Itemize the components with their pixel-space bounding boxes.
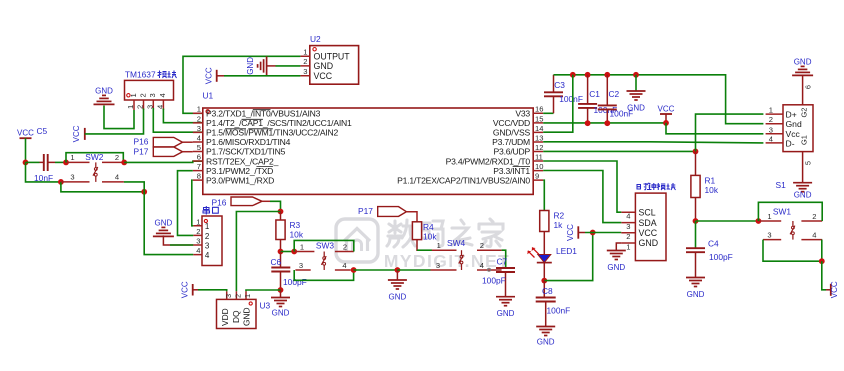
- wire U1 pin11 to clock SCL: [543, 161, 621, 212]
- junction node J (GND): [395, 267, 401, 273]
- svg-text:P1.4/T2_/CAP1_/SCS/TIN2/UCC1/A: P1.4/T2_/CAP1_/SCS/TIN2/UCC1/AIN1: [206, 118, 352, 128]
- power VCC (U2, rotated): [204, 67, 224, 84]
- svg-text:1: 1: [243, 294, 252, 298]
- TM1637 pin numbers (outside, rotated): [126, 105, 164, 109]
- capacitor C8 100nF: [536, 281, 571, 327]
- capacitor C6 100pF: [271, 252, 307, 291]
- svg-text:1k: 1k: [554, 220, 564, 230]
- svg-text:SW4: SW4: [447, 238, 465, 248]
- cap C4 plates: [686, 248, 705, 252]
- wire VCC to U3 VDD: [198, 290, 227, 291]
- svg-text:4: 4: [115, 173, 119, 182]
- wire U1 pin16 V33 to C3: [543, 112, 553, 114]
- wire C6 node to U3 GND pin: [246, 290, 281, 291]
- svg-text:3: 3: [436, 261, 440, 270]
- wire node J to SW4 pin3: [397, 269, 430, 271]
- svg-text:3: 3: [205, 241, 210, 250]
- wire USB D+ pin1: [696, 114, 764, 151]
- wire SW4 pin2 to C7: [502, 250, 506, 268]
- svg-text:9: 9: [535, 172, 539, 181]
- wire U1 pin8 to serial pin1: [192, 180, 194, 226]
- svg-text:GND: GND: [242, 307, 252, 326]
- svg-text:C6: C6: [271, 257, 282, 267]
- connector USB: [783, 105, 813, 152]
- wire U2 pin2 to GND: [276, 65, 301, 67]
- junction node A (VCC): [23, 160, 29, 166]
- ground (U3/C6): [271, 298, 290, 318]
- U1 left pin stubs: [193, 113, 203, 180]
- wire C5 to SW2 pin1: [55, 161, 66, 163]
- svg-text:2: 2: [303, 57, 307, 66]
- svg-text:2: 2: [115, 153, 119, 162]
- svg-text:P1.1/T2EX/CAP2/TIN1/VBUS2/AIN0: P1.1/T2EX/CAP2/TIN1/VBUS2/AIN0: [397, 175, 530, 185]
- cap C7 plates: [496, 268, 515, 272]
- clock module label 时钟模块: [637, 183, 676, 190]
- U3 pin numbers (rotated): [224, 294, 252, 298]
- port P16 flag (U1 pin4): [134, 137, 193, 147]
- junction SW1 loop: [756, 218, 762, 224]
- svg-text:GND: GND: [639, 238, 659, 248]
- power VCC (TM1637): [72, 125, 85, 142]
- svg-text:P17: P17: [358, 206, 373, 216]
- svg-text:GND: GND: [794, 58, 812, 67]
- U1 right pin stubs: [533, 113, 543, 180]
- svg-text:10: 10: [535, 162, 543, 171]
- wire SW3 top loop: [294, 240, 354, 251]
- switch SW2: [61, 152, 125, 182]
- svg-text:VCC: VCC: [830, 281, 839, 298]
- cap C6 plates: [271, 268, 290, 272]
- svg-text:GND: GND: [155, 219, 173, 228]
- svg-text:4: 4: [196, 246, 200, 255]
- svg-text:P1.7/SCK/TXD1/TIN5: P1.7/SCK/TXD1/TIN5: [206, 147, 286, 157]
- junction C5/SW2.1: [63, 160, 69, 166]
- svg-text:1: 1: [126, 105, 135, 109]
- junction R3/C6: [278, 249, 284, 255]
- svg-text:P17: P17: [134, 146, 149, 156]
- svg-text:C8: C8: [542, 286, 553, 296]
- power VCC (left): [17, 129, 34, 139]
- switch SW4 lever: [459, 250, 464, 270]
- ground (node J): [388, 280, 407, 302]
- TM1637 pin1 marker: [127, 94, 130, 97]
- switch SW1: [759, 207, 822, 240]
- resistor R3 10k: [276, 220, 304, 240]
- ground (TM1637): [94, 87, 115, 105]
- svg-text:VCC: VCC: [204, 67, 213, 84]
- junction C1/VCC line: [585, 120, 591, 126]
- U1 pin names and numbers: [197, 105, 544, 186]
- wire VCC stem: [665, 114, 667, 123]
- wire TM1637 pin4 to U1 pin2: [163, 109, 202, 123]
- ground (U2, rotated): [246, 56, 276, 75]
- svg-text:SW1: SW1: [773, 207, 791, 217]
- svg-text:1: 1: [626, 242, 630, 251]
- connector U2: [300, 34, 358, 84]
- svg-text:C4: C4: [708, 239, 719, 249]
- svg-text:GND: GND: [95, 87, 113, 96]
- svg-text:100pF: 100pF: [709, 252, 733, 262]
- wire GND rail (top): [554, 75, 764, 124]
- capacitor C7 100pF: [482, 256, 515, 296]
- ground (clock): [607, 251, 626, 273]
- svg-text:1: 1: [767, 212, 771, 221]
- LED1: [527, 232, 577, 281]
- junction LED/C8: [541, 278, 547, 284]
- svg-text:3: 3: [148, 93, 157, 97]
- svg-text:VCC: VCC: [658, 104, 675, 113]
- svg-text:10k: 10k: [423, 231, 437, 241]
- svg-text:VCC: VCC: [566, 224, 575, 241]
- wire node K to SW1: [696, 220, 760, 222]
- svg-text:100nF: 100nF: [547, 306, 571, 316]
- USB shield pin6: [803, 75, 813, 104]
- svg-text:MYDIGIT.NET: MYDIGIT.NET: [384, 251, 510, 271]
- svg-text:P3.4/PWM2/RXD1_/T0: P3.4/PWM2/RXD1_/T0: [446, 156, 531, 166]
- svg-text:VDD: VDD: [220, 308, 230, 326]
- svg-text:4: 4: [158, 93, 167, 97]
- svg-text:4: 4: [205, 251, 210, 260]
- wire SW1 top loop: [758, 202, 822, 221]
- wire SW3 bottom loop: [294, 270, 353, 280]
- svg-text:7: 7: [197, 162, 201, 171]
- module TM1637 label 模块: [158, 71, 177, 79]
- wire VCC bar to clock pin2: [585, 232, 621, 234]
- svg-text:C1: C1: [589, 89, 600, 99]
- svg-text:1: 1: [205, 222, 210, 231]
- svg-text:GND: GND: [627, 104, 645, 113]
- svg-text:11: 11: [535, 152, 543, 161]
- svg-text:3: 3: [626, 222, 630, 231]
- wire LED node to VCC node (clock): [544, 233, 592, 281]
- cap C2 plates: [598, 105, 617, 109]
- serial port pin numbers: [196, 217, 210, 260]
- junction VCC clock node: [590, 230, 596, 236]
- power VCC (top): [658, 104, 675, 114]
- wire P3.6/UDP pin12 line: [543, 150, 695, 152]
- ground (C8): [536, 327, 555, 347]
- wire GND/VSS pin14 up to rail: [543, 75, 573, 132]
- USB shield pin5: [803, 152, 813, 183]
- port P17 flag (bottom): [358, 206, 417, 222]
- wire R4 to SW4 pin1: [417, 240, 432, 251]
- svg-text:10k: 10k: [705, 185, 719, 195]
- svg-text:GND: GND: [497, 309, 515, 318]
- clock module pin numbers: [626, 212, 630, 252]
- wire node E down to serial pin4: [144, 192, 193, 255]
- junction SW2.2 / RST wire: [121, 160, 127, 166]
- wire SW1 node down to VCC: [822, 261, 826, 290]
- svg-text:4: 4: [626, 212, 630, 221]
- svg-text:GND: GND: [246, 57, 255, 75]
- svg-text:G2: G2: [800, 108, 809, 118]
- svg-text:4: 4: [769, 134, 773, 143]
- svg-text:P3.7/UDM: P3.7/UDM: [492, 137, 530, 147]
- svg-text:SCL: SCL: [639, 207, 656, 217]
- wire SW2 pin4 to node E: [124, 182, 144, 192]
- svg-text:2: 2: [343, 242, 347, 251]
- junction C2/VCC line: [604, 120, 610, 126]
- connector P16 serial port: [202, 216, 222, 266]
- svg-text:2: 2: [196, 227, 200, 236]
- junction SW2.3 node: [58, 179, 64, 185]
- capacitor C4 100pF: [686, 221, 733, 278]
- ground (USB top): [792, 58, 813, 76]
- capacitor C2 100nF: [598, 75, 633, 124]
- wire U1 pin9 to R2: [543, 180, 544, 210]
- svg-text:2: 2: [205, 232, 210, 241]
- junction node E: [141, 189, 147, 195]
- svg-text:3: 3: [767, 231, 771, 240]
- svg-text:8: 8: [197, 172, 201, 181]
- svg-text:100nF: 100nF: [559, 94, 583, 104]
- resistor R4 10k: [412, 222, 437, 242]
- svg-text:100pF: 100pF: [482, 276, 506, 286]
- svg-text:1: 1: [437, 241, 441, 250]
- svg-text:14: 14: [535, 124, 543, 133]
- wire VCC stem to node A: [25, 138, 27, 162]
- svg-text:10k: 10k: [290, 230, 304, 240]
- svg-text:SDA: SDA: [639, 218, 657, 228]
- svg-text:P16: P16: [134, 137, 149, 147]
- module TM1637: [125, 70, 174, 100]
- junction VCC/USB Vcc: [663, 120, 669, 126]
- port P16 flag (bottom): [212, 197, 271, 207]
- svg-text:SW3: SW3: [316, 241, 334, 251]
- svg-text:4: 4: [480, 261, 484, 270]
- svg-text:VCC: VCC: [639, 228, 658, 238]
- switch SW4: [431, 238, 502, 271]
- svg-text:SW2: SW2: [85, 152, 103, 162]
- ground (rail): [635, 75, 637, 91]
- capacitor C5 10nF (horizontal): [34, 126, 55, 183]
- svg-text:2: 2: [626, 232, 630, 241]
- svg-text:C5: C5: [37, 126, 48, 136]
- watermark text 数码之家: [387, 219, 503, 247]
- svg-text:U2: U2: [310, 34, 321, 44]
- svg-text:TM1637: TM1637: [125, 70, 156, 80]
- svg-text:1: 1: [196, 217, 200, 226]
- USB pin numbers: [769, 106, 773, 144]
- svg-text:3: 3: [197, 124, 201, 133]
- svg-text:C7: C7: [497, 256, 508, 266]
- U3 pin stubs: [227, 291, 246, 299]
- port P17 flag (U1 pin5): [134, 146, 193, 156]
- wire C6 node to ground: [280, 290, 282, 298]
- wire U1 pin7 to serial pin2: [178, 171, 194, 236]
- junction SW3 loop: [291, 249, 297, 255]
- svg-text:VCC/VDD: VCC/VDD: [493, 118, 530, 128]
- svg-text:VCC: VCC: [72, 125, 81, 142]
- svg-text:P16: P16: [212, 197, 227, 207]
- svg-text:P1.6/MISO/RXD1/TIN4: P1.6/MISO/RXD1/TIN4: [206, 137, 291, 147]
- svg-text:4: 4: [155, 105, 164, 109]
- TM1637 pin numbers (inside, rotated): [129, 93, 167, 97]
- U1 pin-name overbars: [225, 110, 530, 167]
- svg-text:2: 2: [769, 115, 773, 124]
- svg-text:C2: C2: [609, 89, 620, 99]
- junction node K: [693, 218, 699, 224]
- svg-text:S1: S1: [776, 180, 787, 190]
- USB pin stubs: [766, 114, 783, 143]
- TM1637 pin stubs: [134, 100, 163, 110]
- wire SW1 bottom loop: [763, 240, 822, 262]
- svg-text:GND: GND: [687, 290, 705, 299]
- svg-text:Vcc: Vcc: [786, 129, 801, 139]
- svg-text:GND: GND: [389, 293, 407, 302]
- ground (serial pin3): [153, 219, 174, 237]
- switch SW3: [295, 241, 354, 270]
- junction SW1.4/VCC: [819, 258, 825, 264]
- svg-text:13: 13: [535, 133, 543, 142]
- svg-text:VCC: VCC: [180, 281, 189, 298]
- wire P16 flag to DQ node: [270, 201, 281, 211]
- ground (USB bottom): [793, 183, 812, 200]
- resistor R1 10k: [691, 175, 719, 197]
- svg-text:5: 5: [197, 143, 201, 152]
- junction C6/U3 GND: [278, 287, 284, 293]
- svg-text:3: 3: [303, 67, 307, 76]
- svg-text:RST/T2EX_/CAP2_: RST/T2EX_/CAP2_: [206, 156, 279, 166]
- svg-text:5: 5: [804, 161, 813, 165]
- svg-text:1: 1: [303, 48, 307, 57]
- junction rail/GNDVSS: [570, 72, 576, 78]
- svg-text:OUTPUT: OUTPUT: [314, 52, 351, 62]
- svg-text:1: 1: [769, 106, 773, 115]
- svg-text:GND: GND: [537, 338, 555, 347]
- svg-text:VCC: VCC: [17, 129, 34, 138]
- svg-text:U1: U1: [203, 91, 214, 101]
- svg-text:1: 1: [197, 105, 201, 114]
- wire SW2 pin3 node down-right to node E: [61, 182, 144, 192]
- svg-text:4: 4: [197, 133, 201, 142]
- junction rail/GND sym: [633, 72, 639, 78]
- svg-text:V33: V33: [515, 109, 530, 119]
- junction SW3.4: [351, 267, 357, 273]
- IC U3 (VDD/DQ/GND): [217, 299, 271, 328]
- svg-text:D+: D+: [786, 109, 797, 119]
- svg-text:6: 6: [804, 85, 813, 89]
- svg-text:3: 3: [299, 261, 303, 270]
- svg-text:P3.3/INT1: P3.3/INT1: [493, 166, 530, 176]
- svg-text:3: 3: [70, 173, 74, 182]
- wire U2 pin1 OUTPUT to U1 pin1: [183, 56, 300, 113]
- svg-text:1: 1: [300, 242, 304, 251]
- ground (C7): [496, 297, 515, 319]
- power VCC (U3, rotated): [180, 281, 198, 298]
- wire P3.7/UDM pin13 to USB D-: [543, 142, 763, 143]
- svg-text:15: 15: [535, 114, 543, 123]
- wire TM1637 pin2 to VCC: [85, 109, 144, 134]
- svg-text:2: 2: [812, 212, 816, 221]
- wire U2 pin3 to VCC: [224, 75, 300, 77]
- cap C3 plates: [544, 92, 563, 96]
- svg-text:LED1: LED1: [556, 246, 577, 256]
- svg-text:Gnd: Gnd: [786, 119, 802, 129]
- wire node A down to SW2 pin3: [26, 162, 61, 182]
- svg-text:12: 12: [535, 143, 543, 152]
- resistor R2 1k: [540, 211, 565, 232]
- cap C1 plates: [578, 104, 597, 108]
- svg-text:P3.6/UDP: P3.6/UDP: [494, 147, 531, 157]
- power VCC (clock, rotated): [566, 224, 585, 241]
- wire R3 node to SW3 pin1: [281, 251, 296, 253]
- junction UDP/R1/D+: [693, 149, 699, 155]
- svg-text:2: 2: [480, 241, 484, 250]
- svg-text:P3.0/PWM1_/RXD: P3.0/PWM1_/RXD: [206, 175, 274, 185]
- svg-text:3: 3: [224, 294, 233, 298]
- junction rail/C1: [585, 72, 591, 78]
- svg-text:6: 6: [197, 152, 201, 161]
- svg-text:2: 2: [138, 93, 147, 97]
- wire node J stem: [396, 270, 398, 280]
- svg-text:GND: GND: [607, 263, 625, 272]
- svg-text:1: 1: [70, 153, 74, 162]
- svg-text:GND: GND: [272, 309, 290, 318]
- wire DQ node to R3: [280, 212, 282, 221]
- wire DQ node to U3 DQ pin: [236, 212, 280, 292]
- svg-text:4: 4: [812, 231, 816, 240]
- watermark logo house: [336, 219, 378, 262]
- capacitor C3 100nF: [544, 75, 583, 114]
- wire node A to C5: [26, 161, 40, 163]
- wire SW2 top loop pins1-2: [66, 153, 123, 163]
- wire R1 to node K: [695, 198, 697, 222]
- serial port label 串口: [203, 206, 218, 215]
- wire VCC/VDD pin15 line: [543, 122, 666, 124]
- switch SW1 lever: [790, 221, 795, 240]
- wire SW3.4 to ground node J: [354, 269, 398, 271]
- svg-text:GND: GND: [314, 61, 334, 71]
- switch SW3 lever: [321, 252, 326, 271]
- wire TM1637 pin1 to GND: [104, 106, 134, 129]
- svg-text:16: 16: [535, 105, 543, 114]
- module clock box: [635, 193, 666, 261]
- clock module pin stubs: [621, 212, 635, 243]
- cap C8 plates: [536, 298, 556, 302]
- svg-text:3: 3: [769, 125, 773, 134]
- svg-text:2: 2: [136, 105, 145, 109]
- ground (C4): [686, 278, 705, 300]
- svg-text:2: 2: [197, 114, 201, 123]
- svg-text:4: 4: [342, 261, 346, 270]
- switch SW2 lever: [93, 162, 98, 182]
- wire VCC node to USB Vcc pin3: [666, 123, 763, 134]
- IC U1 (MCU): [203, 91, 534, 195]
- svg-text:2: 2: [234, 294, 243, 298]
- wire U1 pin10 to clock SDA: [543, 171, 621, 223]
- svg-text:GND/VSS: GND/VSS: [493, 128, 531, 138]
- wire TM1637 pin3 to U1 pin3: [153, 108, 203, 132]
- wire clock GND pin1: [616, 243, 621, 251]
- svg-text:G1: G1: [800, 135, 809, 145]
- svg-text:U3: U3: [260, 301, 271, 311]
- wire RST net SW2.2 to U1 pin6: [124, 161, 203, 162]
- svg-text:3: 3: [196, 237, 200, 246]
- svg-text:P3.1/PWM2_/TXD: P3.1/PWM2_/TXD: [206, 166, 273, 176]
- wire GND to serial pin3: [163, 235, 193, 245]
- serial port pin stubs: [193, 226, 202, 255]
- wire R3 to SW3 node: [280, 240, 282, 252]
- ground symbol (rail): [627, 91, 646, 113]
- svg-text:GND: GND: [794, 191, 812, 200]
- svg-text:D-: D-: [786, 139, 795, 149]
- junction DQ node: [278, 209, 284, 215]
- svg-text:C3: C3: [554, 80, 565, 90]
- capacitor C1 100nF: [578, 75, 617, 124]
- svg-text:1: 1: [129, 93, 138, 97]
- svg-text:VCC: VCC: [314, 71, 333, 81]
